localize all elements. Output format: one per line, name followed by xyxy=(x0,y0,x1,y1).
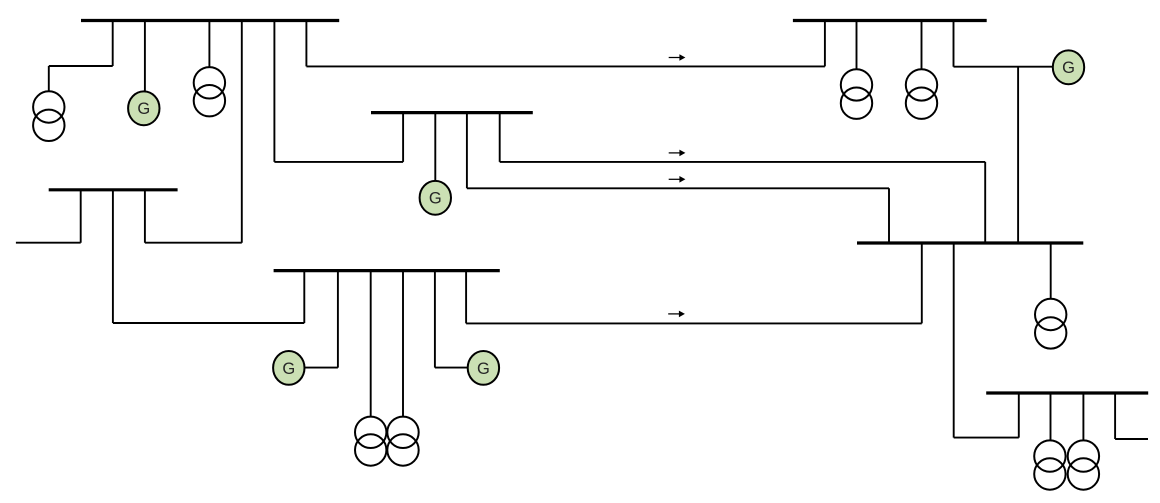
svg-text:G: G xyxy=(429,190,442,208)
svg-text:G: G xyxy=(282,360,295,378)
svg-text:G: G xyxy=(477,360,490,378)
svg-text:G: G xyxy=(1062,59,1075,77)
svg-text:G: G xyxy=(137,100,150,118)
